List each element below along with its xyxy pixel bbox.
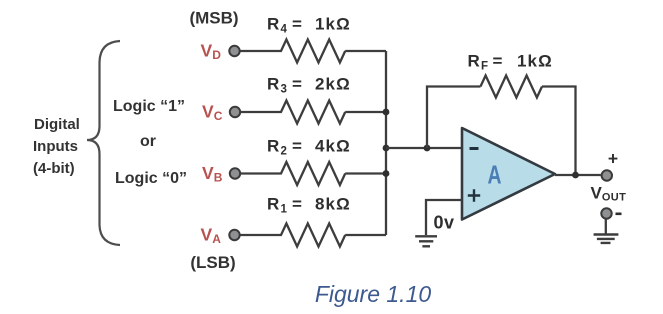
- ground (0v): [415, 236, 437, 246]
- wire output terminal to ground: [605, 219, 607, 234]
- resistor R2: [241, 162, 346, 185]
- wire R3 to bus: [345, 111, 386, 113]
- resistor R1: [240, 224, 345, 247]
- svg-text:(MSB): (MSB): [189, 9, 238, 28]
- wire bus to op-amp inverting input: [386, 147, 462, 149]
- svg-text:Figure 1.10: Figure 1.10: [315, 281, 432, 307]
- svg-text:+: +: [608, 149, 618, 169]
- op-amp A body: [462, 128, 555, 220]
- brace for digital inputs: [87, 41, 120, 245]
- wire R2 to bus: [345, 172, 386, 174]
- wire feedback left leg: [427, 87, 481, 149]
- output terminal +: [602, 170, 612, 180]
- input terminal VC: [230, 107, 240, 117]
- node output junction: [572, 172, 579, 179]
- svg-text:(LSB): (LSB): [190, 253, 235, 272]
- resistor R3: [241, 101, 346, 124]
- input terminal VA: [229, 230, 239, 240]
- wire feedback right leg: [542, 87, 576, 176]
- node bus/inverting junction: [383, 145, 390, 152]
- summing bus wire: [385, 51, 387, 235]
- svg-text:Logic “0”: Logic “0”: [115, 170, 187, 187]
- svg-text:(4-bit): (4-bit): [33, 160, 75, 177]
- svg-text:Logic “1”: Logic “1”: [113, 98, 185, 115]
- label Digital Inputs (4-bit): [33, 116, 80, 177]
- op-amp minus sign: [470, 147, 479, 150]
- node bus/R2 junction: [383, 170, 390, 177]
- node feedback tap: [424, 145, 431, 152]
- input terminal VB: [230, 168, 240, 178]
- wire R4 to bus: [345, 50, 386, 52]
- input terminal VD: [229, 46, 239, 56]
- ground (output): [594, 235, 619, 243]
- svg-text:or: or: [140, 133, 156, 150]
- wire non-inverting input to ground: [426, 200, 462, 235]
- wire op-amp output: [555, 174, 601, 176]
- svg-text:0v: 0v: [434, 213, 455, 233]
- node bus/R3 junction: [383, 109, 390, 116]
- output terminal -: [601, 208, 611, 218]
- wire R1 to bus: [345, 234, 386, 236]
- label - (output): [616, 213, 622, 216]
- svg-text:Inputs: Inputs: [33, 138, 78, 155]
- resistor R4: [240, 40, 345, 63]
- svg-text:A: A: [488, 160, 502, 190]
- resistor RF: [481, 76, 543, 98]
- svg-text:Digital: Digital: [34, 116, 80, 133]
- op-amp plus sign: [468, 189, 480, 201]
